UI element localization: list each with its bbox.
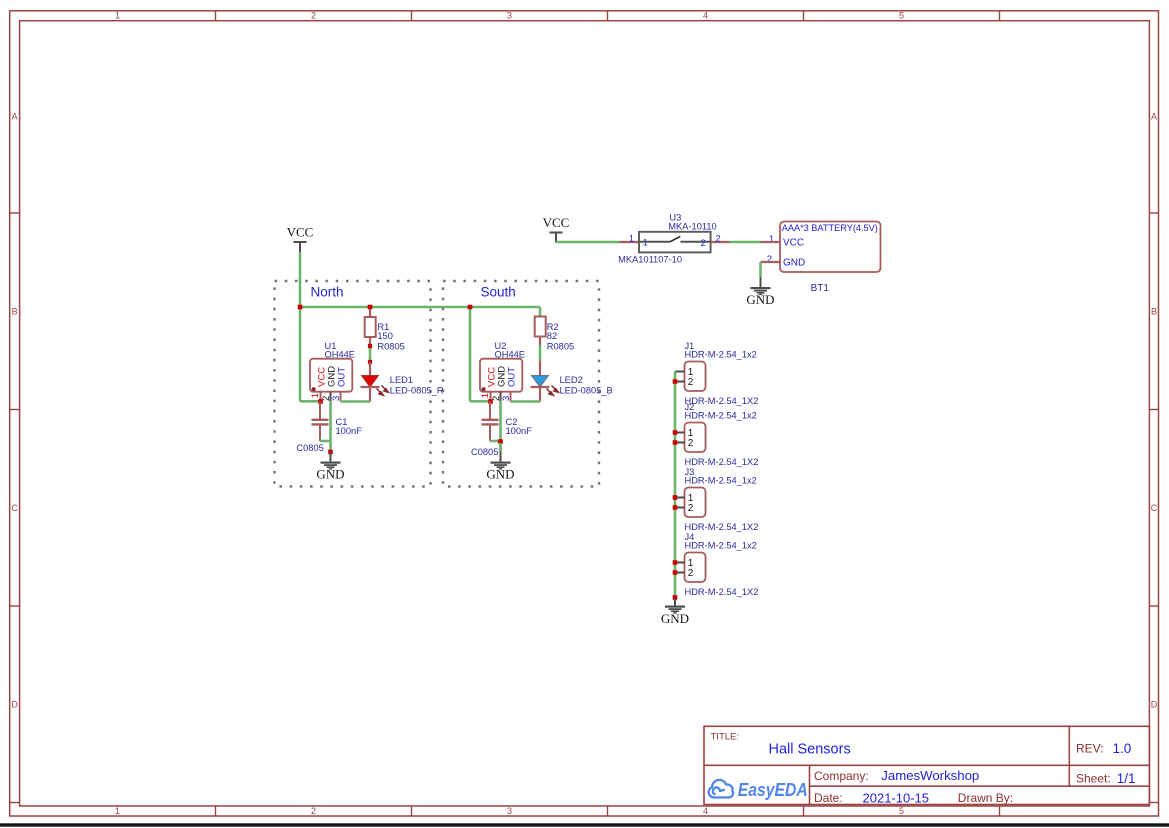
- svg-text:1: 1: [310, 393, 321, 398]
- wire VCC branch down (South): [469, 307, 472, 402]
- wire VCC branch down (North): [299, 307, 302, 402]
- node GND junction (South): [498, 439, 503, 444]
- node J3 pin1: [673, 495, 678, 500]
- wire VCC down to rail: [299, 252, 302, 307]
- svg-text:1.0: 1.0: [1113, 741, 1132, 756]
- node J4 pin2: [673, 570, 678, 575]
- svg-text:82: 82: [547, 331, 557, 341]
- title block: [704, 726, 1149, 804]
- U1 pin 1: [320, 392, 322, 402]
- svg-text:C0805: C0805: [296, 443, 323, 453]
- wire rail to R2: [539, 307, 542, 317]
- svg-text:Date:: Date:: [814, 791, 843, 805]
- svg-text:1: 1: [115, 11, 120, 21]
- svg-text:AAA*3 BATTERY(4.5V): AAA*3 BATTERY(4.5V): [782, 223, 878, 233]
- svg-text:3: 3: [507, 11, 512, 21]
- svg-text:VCC: VCC: [543, 215, 570, 230]
- svg-text:2: 2: [688, 503, 694, 514]
- svg-text:OUT: OUT: [337, 367, 348, 387]
- svg-text:C: C: [1151, 503, 1158, 513]
- wire C1 to GND net: [320, 440, 331, 443]
- U3 body: [639, 232, 711, 253]
- svg-text:REV:: REV:: [1076, 742, 1104, 756]
- svg-text:BT1: BT1: [811, 283, 830, 294]
- svg-text:GND: GND: [783, 258, 805, 269]
- EasyEDA logo: [709, 780, 733, 798]
- ground symbol North: [330, 452, 332, 462]
- J1 pin 1: [675, 371, 685, 373]
- svg-text:100nF: 100nF: [336, 426, 363, 436]
- svg-text:C: C: [11, 503, 18, 513]
- svg-text:HDR-M-2.54_1x2: HDR-M-2.54_1x2: [685, 350, 757, 360]
- U3 pin 1: [620, 241, 639, 243]
- resistor R1: [369, 307, 371, 317]
- wire U2 pin3 to LED2: [511, 400, 541, 403]
- svg-text:2: 2: [311, 11, 316, 21]
- svg-text:1: 1: [643, 238, 648, 249]
- node GND junction (North): [328, 450, 333, 455]
- wire C2 to GND net: [490, 440, 501, 443]
- svg-text:HDR-M-2.54_1X2: HDR-M-2.54_1X2: [685, 396, 759, 406]
- svg-text:LED1: LED1: [390, 375, 413, 385]
- svg-text:North: North: [311, 285, 344, 300]
- svg-text:1: 1: [769, 234, 774, 245]
- svg-text:Sheet:: Sheet:: [1076, 772, 1111, 786]
- U2 pin 1: [490, 392, 492, 402]
- node LED1 top: [368, 360, 372, 364]
- svg-text:1/1: 1/1: [1117, 771, 1136, 786]
- ground symbol J bus: [674, 599, 676, 606]
- svg-text:VCC: VCC: [783, 238, 804, 249]
- svg-text:TITLE:: TITLE:: [711, 732, 740, 743]
- svg-text:HDR-M-2.54_1x2: HDR-M-2.54_1x2: [685, 476, 757, 486]
- svg-text:HDR-M-2.54_1X2: HDR-M-2.54_1X2: [685, 587, 759, 597]
- svg-text:EasyEDA: EasyEDA: [738, 780, 808, 800]
- wire U1 pin2 GND: [329, 401, 332, 450]
- svg-text:1: 1: [629, 234, 634, 245]
- svg-text:2: 2: [688, 438, 694, 449]
- capacitor C2: [489, 402, 491, 420]
- svg-text:Drawn By:: Drawn By:: [958, 791, 1013, 805]
- svg-text:A: A: [12, 112, 18, 122]
- U1 pin 2: [330, 392, 332, 402]
- svg-text:3: 3: [507, 806, 512, 816]
- wire GND bus J1-J4: [674, 372, 677, 598]
- wire U2 pin2 GND: [499, 401, 502, 451]
- wire to U2 pin1: [470, 400, 491, 403]
- svg-text:OUT: OUT: [507, 367, 518, 387]
- svg-text:A: A: [1151, 112, 1157, 122]
- wire battery GND: [759, 262, 762, 277]
- node J3 pin2: [673, 505, 678, 510]
- ground symbol battery: [760, 277, 762, 287]
- wire R2 to LED2: [539, 345, 542, 361]
- node junction rail/R1: [368, 305, 373, 310]
- node J2 pin1: [673, 430, 678, 435]
- U2 pin 3: [510, 392, 512, 402]
- svg-text:South: South: [481, 285, 516, 300]
- svg-text:2021-10-15: 2021-10-15: [863, 790, 930, 805]
- svg-text:Company:: Company:: [814, 769, 869, 783]
- U1 pin 3: [340, 392, 342, 402]
- J4 pin 1: [675, 562, 685, 564]
- LED LED1: [369, 362, 371, 376]
- wire R1 to LED1: [369, 346, 372, 362]
- power symbol VCC (switch): [550, 232, 563, 234]
- svg-text:2: 2: [715, 234, 720, 245]
- svg-text:2: 2: [688, 568, 694, 579]
- J1 pin 2: [675, 381, 685, 383]
- svg-text:JamesWorkshop: JamesWorkshop: [881, 768, 979, 783]
- svg-text:VCC: VCC: [287, 225, 314, 240]
- svg-text:100nF: 100nF: [506, 426, 533, 436]
- svg-text:2: 2: [688, 377, 694, 388]
- svg-text:150: 150: [377, 331, 393, 341]
- region box South: [443, 281, 599, 487]
- svg-text:LED-0805_B: LED-0805_B: [560, 386, 613, 396]
- svg-text:B: B: [1151, 307, 1157, 317]
- svg-text:2: 2: [767, 254, 772, 265]
- node J1 pin2: [673, 379, 678, 384]
- resistor R2: [535, 317, 546, 337]
- capacitor C1: [319, 402, 321, 420]
- svg-text:MKA-10110: MKA-10110: [668, 221, 716, 231]
- J3 pin 2: [675, 507, 685, 509]
- svg-text:2: 2: [311, 806, 316, 816]
- svg-text:R0805: R0805: [547, 341, 574, 351]
- svg-text:D: D: [11, 700, 18, 710]
- svg-text:HDR-M-2.54_1X2: HDR-M-2.54_1X2: [685, 522, 759, 532]
- svg-text:LED-0805_R: LED-0805_R: [390, 386, 444, 396]
- svg-text:5: 5: [899, 11, 904, 21]
- J2 pin 2: [675, 442, 685, 444]
- svg-text:1: 1: [115, 806, 120, 816]
- node U2 pin1 / C2: [488, 399, 493, 404]
- svg-text:1: 1: [480, 393, 491, 398]
- svg-text:Hall Sensors: Hall Sensors: [769, 741, 851, 757]
- svg-text:4: 4: [703, 806, 708, 816]
- svg-text:GND: GND: [661, 611, 689, 626]
- ground symbol South: [500, 452, 502, 462]
- region box North: [275, 281, 431, 487]
- svg-text:MKA101107-10: MKA101107-10: [618, 255, 682, 265]
- node junction rail/VCC: [298, 305, 303, 310]
- wire to U1 pin1: [300, 400, 321, 403]
- node U1 pin1 / C1: [318, 399, 323, 404]
- power symbol VCC (left): [294, 241, 307, 243]
- node bus end: [673, 595, 678, 600]
- U3 pin 2: [711, 241, 729, 243]
- svg-text:GND: GND: [486, 467, 514, 482]
- node R1 bottom: [368, 344, 372, 348]
- svg-text:HDR-M-2.54_1x2: HDR-M-2.54_1x2: [685, 411, 757, 421]
- wire main VCC rail: [300, 306, 540, 309]
- wire C2 junction to ground: [499, 443, 502, 452]
- node J4 pin1: [673, 560, 678, 565]
- svg-text:GND: GND: [746, 292, 774, 307]
- wire switch to battery: [729, 241, 761, 244]
- node J2 pin2: [673, 440, 678, 445]
- svg-text:HDR-M-2.54_1X2: HDR-M-2.54_1X2: [685, 457, 759, 467]
- svg-text:HDR-M-2.54_1x2: HDR-M-2.54_1x2: [685, 541, 757, 551]
- J2 pin 1: [675, 432, 685, 434]
- svg-text:B: B: [12, 307, 18, 317]
- svg-text:2: 2: [701, 238, 706, 249]
- svg-text:GND: GND: [316, 467, 344, 482]
- U2 pin 2: [500, 392, 502, 402]
- J4 pin 2: [675, 572, 685, 574]
- wire U1 pin3 to LED1: [341, 400, 371, 403]
- wire VCC to switch: [556, 241, 620, 244]
- svg-text:5: 5: [899, 806, 904, 816]
- svg-text:D: D: [1151, 700, 1158, 710]
- svg-text:C0805: C0805: [471, 447, 498, 457]
- svg-text:R0805: R0805: [377, 341, 404, 351]
- svg-text:LED2: LED2: [560, 375, 583, 385]
- LED LED2: [539, 361, 541, 376]
- node junction rail/U2 branch: [468, 305, 473, 310]
- J3 pin 1: [675, 497, 685, 499]
- svg-text:4: 4: [703, 11, 708, 21]
